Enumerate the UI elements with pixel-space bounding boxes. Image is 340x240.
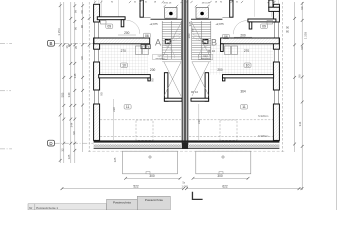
svg-text:09: 09 (107, 25, 111, 29)
svg-text:200: 200 (217, 68, 223, 72)
svg-text:96 10: 96 10 (191, 90, 199, 94)
svg-text:90: 90 (72, 131, 76, 135)
svg-text:35: 35 (74, 46, 78, 50)
svg-text:90: 90 (80, 25, 84, 29)
svg-text:99: 99 (73, 10, 77, 14)
svg-text:125: 125 (67, 154, 71, 159)
svg-text:300: 300 (217, 174, 223, 178)
svg-text:28 61 28: 28 61 28 (202, 2, 211, 4)
svg-text:344: 344 (298, 121, 302, 126)
svg-text:1 049: 1 049 (182, 185, 189, 188)
svg-text:10: 10 (246, 64, 250, 68)
svg-text:90: 90 (99, 92, 103, 96)
svg-text:1 253: 1 253 (57, 28, 61, 36)
svg-text:06: 06 (224, 35, 228, 39)
svg-text:364: 364 (240, 90, 246, 94)
svg-text:Powierzchnia: Powierzchnia (113, 201, 131, 205)
svg-text:622: 622 (222, 184, 228, 188)
svg-text:h=220cm: h=220cm (258, 115, 268, 118)
svg-text:344: 344 (69, 122, 73, 127)
svg-text:200: 200 (124, 31, 130, 35)
svg-text:32: 32 (61, 148, 65, 152)
svg-text:90: 90 (151, 78, 155, 82)
svg-text:90: 90 (73, 27, 77, 31)
svg-text:148: 148 (73, 73, 77, 78)
svg-text:28 61 28: 28 61 28 (163, 2, 172, 4)
svg-text:+2,975: +2,975 (149, 22, 158, 26)
svg-text:99: 99 (300, 6, 304, 10)
svg-text:Pomieszczenie 1: Pomieszczenie 1 (36, 206, 58, 210)
svg-text:325: 325 (188, 21, 192, 26)
svg-text:Powierzchnia: Powierzchnia (145, 198, 163, 202)
svg-text:228: 228 (197, 119, 201, 124)
svg-text:90: 90 (300, 46, 304, 50)
svg-text:270: 270 (244, 49, 250, 53)
svg-text:06: 06 (145, 34, 149, 38)
svg-text:80: 80 (286, 30, 290, 34)
svg-text:228: 228 (112, 107, 116, 112)
svg-text:125: 125 (113, 157, 117, 162)
svg-text:300: 300 (149, 174, 155, 178)
svg-text:B: B (50, 41, 53, 46)
svg-text:1 203: 1 203 (303, 31, 307, 39)
svg-text:522: 522 (133, 184, 139, 188)
svg-text:16: 16 (65, 45, 69, 49)
svg-text:+2,975: +2,975 (215, 22, 224, 26)
svg-text:200: 200 (240, 33, 246, 37)
svg-text:D: D (49, 141, 52, 146)
svg-text:Nr: Nr (29, 206, 32, 210)
svg-text:wentylacji: wentylacji (155, 57, 165, 60)
svg-text:200: 200 (150, 68, 156, 72)
svg-text:90: 90 (191, 28, 195, 32)
svg-text:h=180cm: h=180cm (258, 135, 268, 138)
svg-text:270: 270 (121, 49, 127, 53)
svg-text:11: 11 (126, 105, 130, 109)
svg-text:09: 09 (262, 25, 266, 29)
svg-text:wentylacji: wentylacji (201, 57, 211, 60)
svg-text:11: 11 (242, 105, 246, 109)
svg-text:503: 503 (60, 92, 64, 97)
svg-text:90: 90 (80, 56, 84, 60)
svg-text:10: 10 (122, 64, 126, 68)
svg-text:60: 60 (80, 10, 84, 14)
svg-text:340: 340 (67, 92, 71, 97)
svg-text:200: 200 (187, 33, 191, 38)
svg-text:A: A (155, 37, 161, 47)
svg-text:B: B (211, 37, 217, 47)
svg-text:96: 96 (297, 74, 301, 78)
